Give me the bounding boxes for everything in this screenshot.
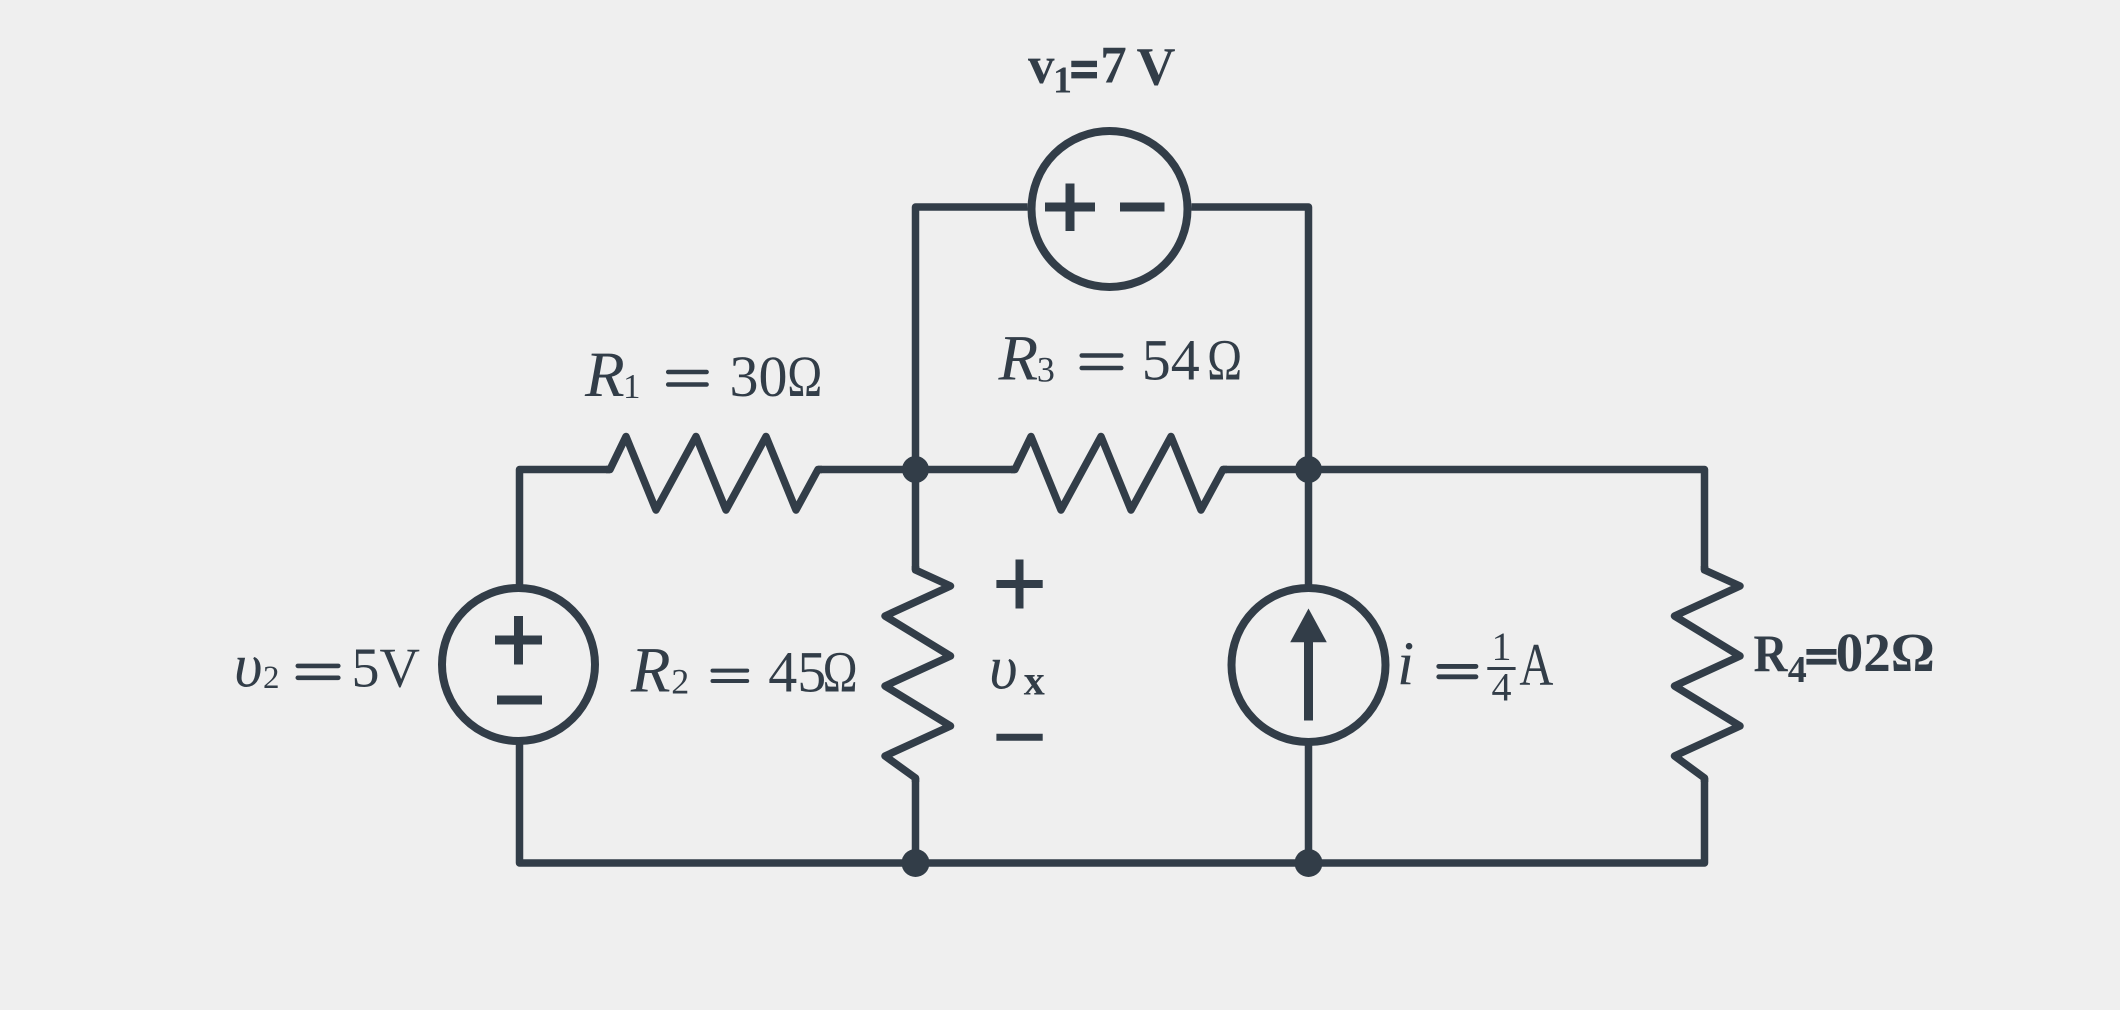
wire: v2 bottom lead down to bottom row left segment xyxy=(520,745,916,864)
svg-text:R: R xyxy=(584,339,625,411)
current source arrow head xyxy=(1290,609,1327,643)
node A: junction R1/R3/v1 branch/R2 xyxy=(902,456,929,483)
v1 minus sign xyxy=(1120,203,1165,212)
svg-text:30: 30 xyxy=(730,344,788,409)
svg-text:R: R xyxy=(1754,625,1789,683)
wire: node B right and down to R4 top xyxy=(1309,470,1705,571)
svg-text:02Ω: 02Ω xyxy=(1836,622,1935,683)
svg-text:Ω: Ω xyxy=(1207,328,1242,393)
wire: current source bottom lead xyxy=(1305,746,1313,864)
svg-text:54: 54 xyxy=(1142,328,1200,393)
node D: bottom junction under current source xyxy=(1295,849,1323,877)
wire: R3 to node B xyxy=(1223,466,1309,474)
voltage source v2 circle xyxy=(442,588,595,741)
current source circle xyxy=(1232,588,1386,742)
current source arrow shaft xyxy=(1304,640,1313,721)
wire: R1 to node A xyxy=(818,466,916,474)
wire: v1 loop right side xyxy=(1192,207,1309,470)
svg-text:i: i xyxy=(1397,631,1414,699)
node C: bottom junction under R2 xyxy=(902,849,930,877)
svg-text:4: 4 xyxy=(1492,665,1512,710)
vx plus sign xyxy=(996,560,1042,609)
R1 equals sign xyxy=(668,372,706,385)
wire: v2 top lead up to left corner of main row xyxy=(520,470,611,585)
svg-text:V: V xyxy=(1137,37,1176,97)
v2 equals sign xyxy=(298,666,339,678)
v1 plus sign xyxy=(1045,184,1095,232)
svg-text:1: 1 xyxy=(1492,624,1512,669)
svg-text:4: 4 xyxy=(1788,649,1807,691)
resistor R1 xyxy=(606,437,822,511)
svg-text:υ: υ xyxy=(989,635,1017,703)
i equals sign xyxy=(1439,666,1476,676)
vx minus sign xyxy=(996,734,1042,741)
svg-text:2: 2 xyxy=(263,660,280,696)
svg-text:Ω: Ω xyxy=(787,344,822,409)
resistor R2 xyxy=(885,566,951,782)
v2 plus sign xyxy=(495,616,542,665)
wire: R2 top lead xyxy=(912,470,920,571)
svg-text:5V: 5V xyxy=(352,637,420,699)
svg-text:A: A xyxy=(1519,632,1553,698)
svg-text:v: v xyxy=(1028,37,1055,95)
svg-text:45: 45 xyxy=(768,639,826,704)
wire: current source top lead xyxy=(1305,470,1313,585)
svg-text:3: 3 xyxy=(1037,350,1055,390)
node B: junction R3/v1 branch/current source xyxy=(1295,456,1322,483)
v1 equals sign xyxy=(1071,64,1097,75)
v2 minus sign xyxy=(497,696,542,705)
svg-text:υ: υ xyxy=(234,632,262,700)
svg-text:7: 7 xyxy=(1100,37,1127,95)
wire: bottom row node C to node D xyxy=(916,859,1309,867)
svg-text:1: 1 xyxy=(623,367,641,406)
svg-text:R: R xyxy=(998,323,1039,395)
wire: bottom row node D to R4 bottom lead xyxy=(1309,778,1705,863)
R4 equals sign xyxy=(1806,652,1836,662)
svg-text:1: 1 xyxy=(1053,60,1072,102)
resistor R4 xyxy=(1675,566,1741,782)
svg-text:2: 2 xyxy=(671,662,689,702)
wire: v1 loop left side xyxy=(916,207,1028,470)
svg-text:Ω: Ω xyxy=(823,639,858,704)
svg-text:R: R xyxy=(630,634,671,706)
voltage source v1 circle xyxy=(1032,131,1188,287)
R2 equals sign xyxy=(713,671,748,681)
resistor R3 xyxy=(1011,437,1227,511)
wire: R2 bottom lead xyxy=(912,778,920,863)
label v1=7V xyxy=(1028,37,1176,102)
label R4 = 02 ohm xyxy=(1754,622,1935,691)
wire: node A to R3 xyxy=(916,466,1016,474)
R3 equals sign xyxy=(1082,356,1122,369)
svg-text:x: x xyxy=(1024,659,1045,705)
